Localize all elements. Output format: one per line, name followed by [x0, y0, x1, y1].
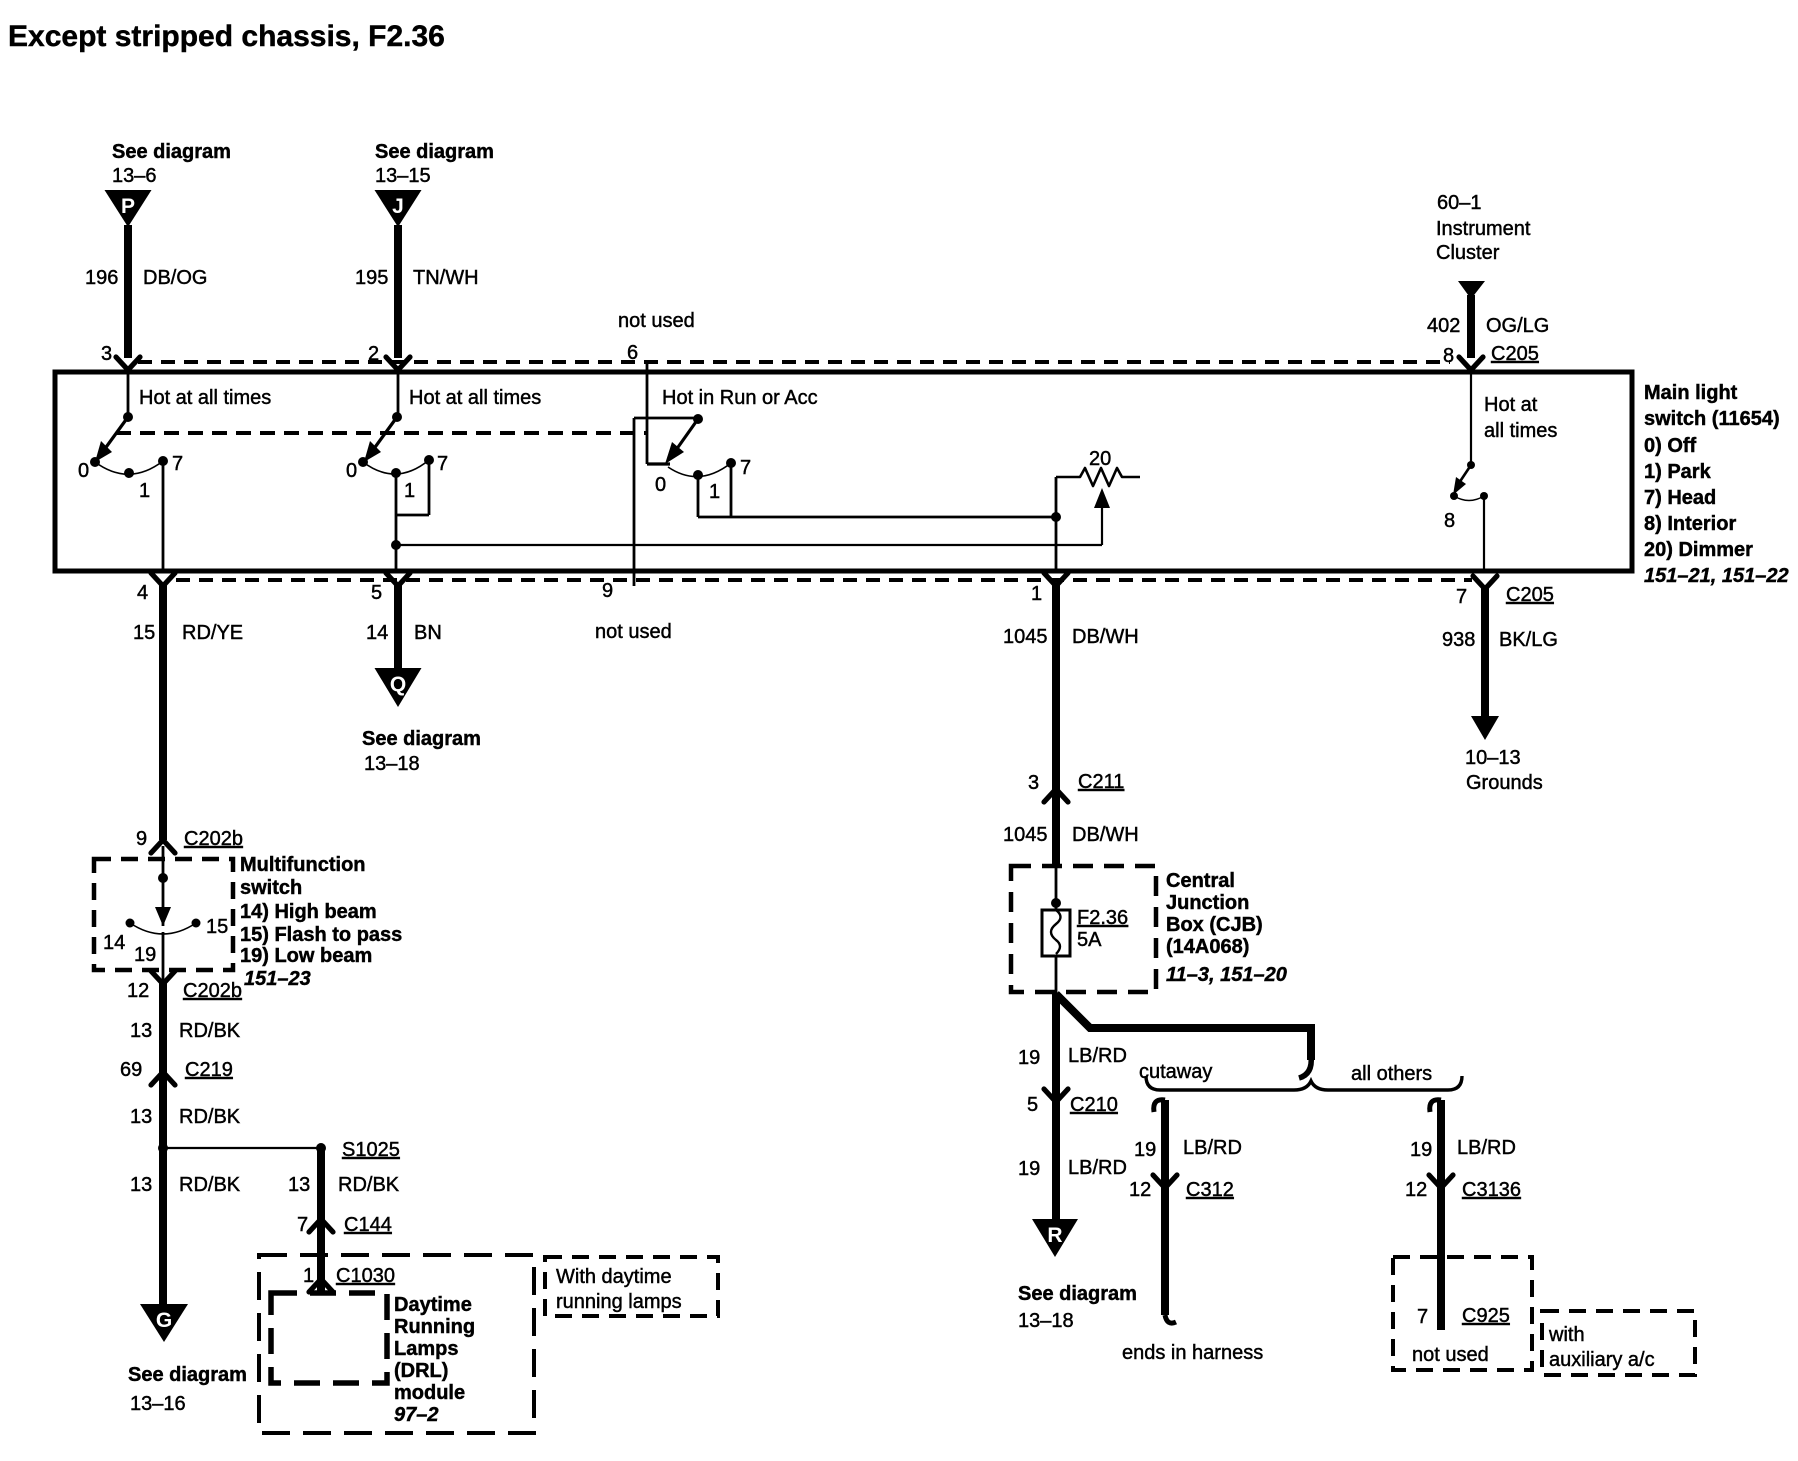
svg-text:12: 12: [1129, 1179, 1151, 1201]
svg-text:11–3, 151–20: 11–3, 151–20: [1166, 964, 1287, 986]
svg-text:C3136: C3136: [1462, 1179, 1521, 1201]
switch 2 contact 7 link down: [428, 460, 431, 515]
svg-text:C202b: C202b: [184, 828, 243, 850]
svg-text:19: 19: [1134, 1139, 1156, 1161]
multifunction contact 14: [126, 919, 135, 928]
svg-text:1: 1: [139, 480, 150, 502]
svg-text:C205: C205: [1491, 343, 1539, 365]
svg-text:Junction: Junction: [1166, 892, 1249, 914]
switch 8 output wire to pin 7: [1483, 496, 1485, 571]
CJB internal wire bottom: [1055, 956, 1058, 994]
switch 2 wiper arm with arrow: [373, 417, 397, 450]
off-page connector Q (triangle): [375, 668, 422, 707]
svg-text:C312: C312: [1186, 1179, 1234, 1201]
svg-text:LB/RD: LB/RD: [1068, 1157, 1127, 1179]
svg-text:60–1: 60–1: [1437, 192, 1482, 214]
wire from switch 3 contacts to dimmer junction: [731, 516, 1056, 519]
svg-text:Daytime: Daytime: [394, 1294, 472, 1316]
svg-text:auxiliary a/c: auxiliary a/c: [1549, 1349, 1655, 1371]
svg-text:See diagram: See diagram: [362, 728, 481, 750]
svg-text:12: 12: [127, 980, 149, 1002]
pin 5 arrowhead out of switch: [386, 573, 410, 586]
svg-text:15: 15: [206, 916, 228, 938]
svg-text:switch (11654): switch (11654): [1644, 408, 1780, 430]
svg-text:5A: 5A: [1077, 929, 1102, 951]
svg-text:Cluster: Cluster: [1436, 242, 1500, 264]
splice S1025 node: [158, 1143, 168, 1153]
multifunction output wire: [162, 932, 165, 987]
svg-text:1: 1: [303, 1265, 314, 1287]
off-page connector J (triangle): [375, 190, 422, 227]
pin 8 arrowhead into switch, connector C205: [1459, 357, 1483, 370]
svg-text:See diagram: See diagram: [112, 141, 231, 163]
svg-text:15) Flash to pass: 15) Flash to pass: [240, 924, 402, 946]
connector C3136: [1429, 1175, 1453, 1188]
switch 3 contact 7: [726, 458, 736, 468]
connector C210: [1044, 1089, 1068, 1102]
svg-text:DB/WH: DB/WH: [1072, 824, 1139, 846]
svg-text:195: 195: [355, 267, 388, 289]
svg-text:LB/RD: LB/RD: [1183, 1137, 1242, 1159]
switch 2 feed wire: [397, 370, 400, 417]
svg-text:with: with: [1548, 1324, 1585, 1346]
svg-text:F2.36: F2.36: [1077, 907, 1128, 929]
svg-text:0: 0: [346, 460, 357, 482]
svg-text:Except stripped chassis, F2.36: Except stripped chassis, F2.36: [8, 20, 445, 53]
switch 3 wiper arm with arrow: [676, 419, 698, 450]
multifunction node: [158, 873, 168, 883]
svg-text:4: 4: [137, 582, 148, 604]
svg-text:9: 9: [602, 580, 613, 602]
fuse F2.36 5A: [1042, 910, 1070, 956]
svg-text:13–18: 13–18: [1018, 1310, 1074, 1332]
svg-text:C210: C210: [1070, 1094, 1118, 1116]
svg-text:13: 13: [288, 1174, 310, 1196]
svg-text:G: G: [156, 1309, 172, 1332]
svg-text:R: R: [1047, 1224, 1062, 1247]
svg-text:LB/RD: LB/RD: [1068, 1045, 1127, 1067]
svg-text:Main light: Main light: [1644, 382, 1738, 404]
switch 1 output wire (contact 7 to pin 4): [162, 461, 165, 571]
connector C312: [1153, 1175, 1177, 1188]
svg-text:C925: C925: [1462, 1305, 1510, 1327]
svg-text:See diagram: See diagram: [1018, 1283, 1137, 1305]
off-page connector P (triangle): [105, 190, 152, 227]
splice wire to S1025: [163, 1147, 321, 1149]
switch 1 pivot node: [123, 412, 133, 422]
wire dimmer junction to pin 1: [1055, 517, 1058, 571]
svg-text:14: 14: [366, 622, 388, 644]
switch 8 contact arc: [1454, 496, 1484, 501]
switch 2 contact arc: [363, 460, 429, 474]
svg-text:2: 2: [368, 343, 379, 365]
svg-text:13–6: 13–6: [112, 165, 157, 187]
heavy branch wire from CJB output: [1056, 994, 1311, 1060]
svg-text:1: 1: [1031, 583, 1042, 605]
svg-text:1: 1: [404, 480, 415, 502]
svg-text:Box (CJB): Box (CJB): [1166, 914, 1263, 936]
svg-text:20) Dimmer: 20) Dimmer: [1644, 539, 1753, 561]
svg-text:15: 15: [133, 622, 155, 644]
svg-text:5: 5: [1027, 1094, 1038, 1116]
svg-text:13: 13: [130, 1174, 152, 1196]
switch 1 contact 0: [90, 457, 100, 467]
svg-text:1: 1: [709, 481, 720, 503]
pin 9 wire (bracket feed): [633, 418, 636, 586]
svg-text:19) Low beam: 19) Low beam: [240, 945, 372, 967]
svg-text:7) Head: 7) Head: [1644, 487, 1716, 509]
svg-text:7: 7: [172, 453, 183, 475]
svg-text:0: 0: [655, 474, 666, 496]
wire 15 RD/YE heavy: [159, 585, 167, 840]
CJB internal wire top: [1055, 866, 1058, 910]
wire 19 LB/RD heavy (all others): [1437, 1100, 1445, 1330]
svg-text:13–16: 13–16: [130, 1393, 186, 1415]
svg-text:Multifunction: Multifunction: [240, 854, 366, 876]
svg-text:0: 0: [78, 460, 89, 482]
svg-text:3: 3: [1028, 772, 1039, 794]
svg-text:RD/BK: RD/BK: [338, 1174, 400, 1196]
cutaway wire curl top: [1154, 1100, 1165, 1112]
switch 3 contact 1: [693, 470, 703, 480]
svg-text:19: 19: [134, 944, 156, 966]
connector C1030: [309, 1279, 333, 1292]
off-page connector G (triangle): [140, 1304, 188, 1342]
svg-text:19: 19: [1018, 1047, 1040, 1069]
svg-text:19: 19: [1410, 1139, 1432, 1161]
svg-text:13: 13: [130, 1020, 152, 1042]
svg-text:1045: 1045: [1003, 626, 1048, 648]
svg-text:3: 3: [101, 343, 112, 365]
connector C202b (pin 12): [151, 971, 175, 984]
svg-text:97–2: 97–2: [394, 1404, 439, 1426]
multifunction feed wire: [162, 846, 165, 926]
svg-text:running lamps: running lamps: [556, 1291, 682, 1313]
svg-text:switch: switch: [240, 877, 302, 899]
svg-text:ends in harness: ends in harness: [1122, 1342, 1263, 1364]
switch 2 contact 7: [424, 455, 434, 465]
wire 938 BK/LG heavy: [1481, 588, 1489, 718]
svg-text:7: 7: [1456, 586, 1467, 608]
svg-text:RD/BK: RD/BK: [179, 1020, 241, 1042]
split brace: [1146, 1076, 1462, 1090]
svg-text:(14A068): (14A068): [1166, 936, 1249, 958]
pin 4 arrowhead out of switch: [151, 573, 175, 586]
switch 3 contact arc: [668, 463, 731, 477]
svg-text:Hot at all times: Hot at all times: [139, 387, 271, 409]
cutaway wire end hook: [1165, 1315, 1176, 1323]
svg-text:P: P: [121, 195, 135, 218]
svg-text:With daytime: With daytime: [556, 1266, 672, 1288]
switch 1 contact 1: [124, 468, 134, 478]
with daytime running lamps label box: [545, 1257, 718, 1316]
wire 13 RD/BK heavy (S1025 down): [317, 1148, 325, 1293]
connector C202b (pin 9): [151, 840, 175, 853]
switch 8 feed wire: [1470, 370, 1472, 465]
arrow from instrument cluster: [1458, 281, 1485, 299]
wire 19 LB/RD heavy (cutaway): [1161, 1100, 1169, 1315]
svg-text:LB/RD: LB/RD: [1457, 1137, 1516, 1159]
multifunction wiper arrow: [155, 907, 171, 926]
svg-text:5: 5: [371, 582, 382, 604]
svg-text:C202b: C202b: [183, 980, 242, 1002]
svg-text:402: 402: [1427, 315, 1460, 337]
svg-text:not used: not used: [595, 621, 672, 643]
switch 8 contact left: [1450, 492, 1458, 500]
svg-text:Q: Q: [390, 673, 406, 696]
wire 19 LB/RD heavy (CJB down): [1052, 994, 1060, 1221]
svg-text:151–21, 151–22: 151–21, 151–22: [1644, 565, 1789, 587]
switch 1 contact arc: [95, 461, 163, 474]
not used dashed box: [1393, 1257, 1532, 1370]
svg-text:938: 938: [1442, 629, 1475, 651]
svg-text:13: 13: [130, 1106, 152, 1128]
svg-text:DB/WH: DB/WH: [1072, 626, 1139, 648]
svg-text:7: 7: [437, 453, 448, 475]
wire junction up to rheostat: [1055, 477, 1058, 517]
svg-text:BN: BN: [414, 622, 442, 644]
svg-text:196: 196: [85, 267, 118, 289]
svg-text:1) Park: 1) Park: [1644, 461, 1712, 483]
svg-text:RD/BK: RD/BK: [179, 1174, 241, 1196]
svg-text:RD/YE: RD/YE: [182, 622, 243, 644]
svg-text:C219: C219: [185, 1059, 233, 1081]
connector dashed line bottom of box: [176, 578, 1472, 582]
wire 402 OG/LG (heavy vertical to pin 8): [1467, 295, 1475, 358]
switch 2 pivot node: [392, 412, 402, 422]
wire 14 BN heavy: [394, 585, 402, 672]
dimmer wiper feed wire from switch 2: [396, 544, 1102, 546]
svg-text:OG/LG: OG/LG: [1486, 315, 1549, 337]
svg-text:14) High beam: 14) High beam: [240, 901, 377, 923]
svg-text:7: 7: [297, 1214, 308, 1236]
svg-text:not used: not used: [618, 310, 695, 332]
svg-text:all others: all others: [1351, 1063, 1432, 1085]
switch 3 pivot node: [693, 414, 703, 424]
svg-text:S1025: S1025: [342, 1139, 400, 1161]
svg-text:BK/LG: BK/LG: [1499, 629, 1558, 651]
wire 1045 DB/WH heavy: [1052, 585, 1060, 866]
switch 8 wiper arm with arrow: [1459, 465, 1471, 483]
switch 1 feed wire: [127, 370, 130, 417]
connector dashed line C205 top (at box top): [138, 360, 1450, 364]
switch 8 contact right: [1480, 492, 1488, 500]
pin 6 wire down to contact 0: [646, 362, 649, 464]
svg-text:7: 7: [1417, 1306, 1428, 1328]
svg-text:(DRL): (DRL): [394, 1360, 448, 1382]
with daytime running lamps outer dashed box: [259, 1255, 534, 1433]
pin 7 arrowhead out of switch, connector C205: [1473, 576, 1497, 589]
svg-text:151–23: 151–23: [244, 968, 311, 990]
svg-text:69: 69: [120, 1059, 142, 1081]
rheostat 20 (dimmer) zigzag: [1056, 468, 1140, 486]
connector C144: [309, 1219, 333, 1232]
internal dashed line (switch gang link): [116, 431, 647, 435]
svg-text:6: 6: [627, 342, 638, 364]
svg-text:19: 19: [1018, 1158, 1040, 1180]
svg-text:8: 8: [1443, 345, 1454, 367]
pin 2 arrowhead into switch: [386, 357, 410, 370]
svg-text:20: 20: [1089, 448, 1111, 470]
svg-text:C144: C144: [344, 1214, 392, 1236]
switch 3 contact 0 bar: [647, 462, 670, 465]
svg-text:7: 7: [740, 457, 751, 479]
switch 2 contact 1: [391, 468, 401, 478]
svg-text:Hot in Run or Acc: Hot in Run or Acc: [662, 387, 818, 409]
svg-text:J: J: [392, 195, 404, 218]
svg-text:Hot at all times: Hot at all times: [409, 387, 541, 409]
svg-text:not used: not used: [1412, 1344, 1489, 1366]
svg-text:Running: Running: [394, 1316, 475, 1338]
switch 1 contact 7: [158, 456, 168, 466]
connector C219: [151, 1072, 175, 1085]
switch 3 contact links: [697, 475, 700, 517]
switch 2 output wire to pin 5: [395, 473, 398, 571]
branch end hook: [1299, 1056, 1311, 1078]
svg-text:cutaway: cutaway: [1139, 1061, 1212, 1083]
DRL module dashed box: [271, 1293, 387, 1383]
svg-text:all times: all times: [1484, 420, 1557, 442]
main light switch (11654) box outline: [55, 372, 1632, 571]
svg-text:C205: C205: [1506, 584, 1554, 606]
multifunction contact arc: [130, 923, 196, 934]
central junction box dashed outline: [1011, 866, 1156, 992]
svg-text:9: 9: [136, 828, 147, 850]
svg-text:1045: 1045: [1003, 824, 1048, 846]
multifunction contact 15: [192, 919, 201, 928]
svg-text:Central: Central: [1166, 870, 1235, 892]
svg-text:14: 14: [103, 932, 125, 954]
svg-text:TN/WH: TN/WH: [413, 267, 479, 289]
svg-text:See diagram: See diagram: [375, 141, 494, 163]
svg-text:13–15: 13–15: [375, 165, 431, 187]
switch 1 wiper arm with arrow: [104, 417, 128, 450]
svg-text:Grounds: Grounds: [1466, 772, 1543, 794]
svg-text:C1030: C1030: [336, 1265, 395, 1287]
junction node at dimmer: [1051, 512, 1061, 522]
svg-text:8) Interior: 8) Interior: [1644, 513, 1736, 535]
svg-text:Lamps: Lamps: [394, 1338, 458, 1360]
svg-text:DB/OG: DB/OG: [143, 267, 207, 289]
svg-text:See diagram: See diagram: [128, 1364, 247, 1386]
svg-text:module: module: [394, 1382, 465, 1404]
with auxiliary a/c dashed box: [1542, 1311, 1695, 1375]
svg-text:0) Off: 0) Off: [1644, 435, 1697, 457]
wire 13 RD/BK heavy: [159, 983, 167, 1306]
wire 196 DB/OG (heavy vertical from P to pin 3): [124, 225, 132, 358]
svg-text:8: 8: [1444, 510, 1455, 532]
pin 3 arrowhead into switch: [116, 357, 140, 370]
wire 195 TN/WH (heavy vertical from J to pin 2): [394, 225, 402, 358]
svg-text:13–18: 13–18: [364, 753, 420, 775]
arrow to grounds: [1471, 716, 1499, 740]
svg-text:RD/BK: RD/BK: [179, 1106, 241, 1128]
multifunction switch dashed box: [94, 859, 233, 970]
svg-text:Instrument: Instrument: [1436, 218, 1531, 240]
svg-text:10–13: 10–13: [1465, 747, 1521, 769]
off-page connector R (triangle): [1032, 1219, 1078, 1257]
svg-text:12: 12: [1405, 1179, 1427, 1201]
all others wire curl top: [1430, 1100, 1441, 1112]
svg-text:Hot at: Hot at: [1484, 394, 1538, 416]
switch 2 contact 0: [358, 457, 368, 467]
switch 8 pivot node: [1467, 461, 1475, 469]
connector C211: [1044, 789, 1068, 802]
dimmer wiper arrow: [1101, 497, 1103, 545]
svg-text:C211: C211: [1078, 771, 1124, 793]
